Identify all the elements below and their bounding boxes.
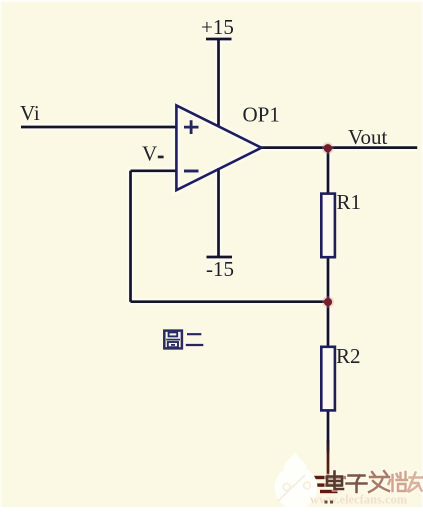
svg-text:-15: -15 xyxy=(206,257,234,281)
svg-text:V: V xyxy=(142,142,157,166)
op-amp minus input symbol xyxy=(184,170,199,173)
svg-text:www.elecfans.com: www.elecfans.com xyxy=(310,493,408,507)
svg-text:+15: +15 xyxy=(201,15,234,39)
watermark logo flame circle xyxy=(275,451,318,509)
svg-text:R2: R2 xyxy=(336,344,361,368)
svg-text:Vi: Vi xyxy=(20,101,40,125)
white halo under chars xyxy=(327,471,422,492)
ground xyxy=(313,476,346,493)
svg-text:OP1: OP1 xyxy=(243,102,280,126)
watermark text dianzi fashaoyou (drawn glyphs) xyxy=(327,471,422,492)
svg-text:R1: R1 xyxy=(337,190,362,214)
watermark dark specks xyxy=(325,501,328,504)
wire halo xyxy=(21,39,417,452)
resistor R1 xyxy=(321,194,335,258)
wire ground lead red xyxy=(327,440,330,477)
op-amp U1 triangle xyxy=(176,105,261,190)
edge strips xyxy=(0,0,423,2)
node junction feedback xyxy=(322,296,334,308)
wires ink xyxy=(21,39,417,452)
op-amp plus input symbol xyxy=(184,120,199,134)
svg-text:Vout: Vout xyxy=(348,125,387,149)
label figure-two (drawn glyphs) xyxy=(164,331,203,349)
resistor R2 xyxy=(321,347,335,411)
node junction output xyxy=(322,142,334,154)
